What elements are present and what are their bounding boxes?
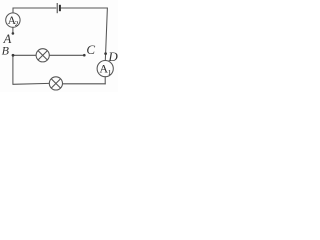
svg-text:B: B — [2, 43, 10, 57]
svg-text:2: 2 — [15, 19, 19, 28]
wire middle B to lamp L1 — [13, 54, 36, 56]
lamp L2 — [49, 77, 62, 90]
battery BT1 long plate — [56, 3, 58, 13]
wire top-right horizontal — [61, 7, 108, 9]
ammeter A1 — [97, 61, 113, 77]
svg-text:1: 1 — [108, 68, 112, 77]
svg-text:C: C — [86, 42, 95, 57]
wire A1 bottom to bottom-right corner — [104, 77, 106, 85]
wire left vertical B to bottom corner — [12, 55, 14, 84]
node A terminal dot — [12, 32, 15, 35]
wire stub A2 bottom to node A — [12, 27, 14, 33]
battery BT1 short thick plate — [59, 5, 61, 11]
wire middle lamp L1 to node C — [49, 54, 83, 56]
node C terminal dot — [83, 54, 86, 57]
wire right vertical from top corner to node D and ammeter A1 — [105, 8, 107, 61]
wire top-left vertical drop to ammeter A2 — [12, 8, 14, 14]
wire top-left horizontal — [13, 7, 57, 9]
ammeter A2 — [6, 13, 20, 28]
svg-text:D: D — [107, 49, 118, 64]
node B terminal dot — [12, 54, 15, 57]
wire bottom left horizontal — [13, 82, 50, 85]
wire bottom right horizontal — [62, 83, 105, 85]
node D terminal dot — [104, 52, 107, 55]
lamp L1 — [36, 49, 49, 62]
